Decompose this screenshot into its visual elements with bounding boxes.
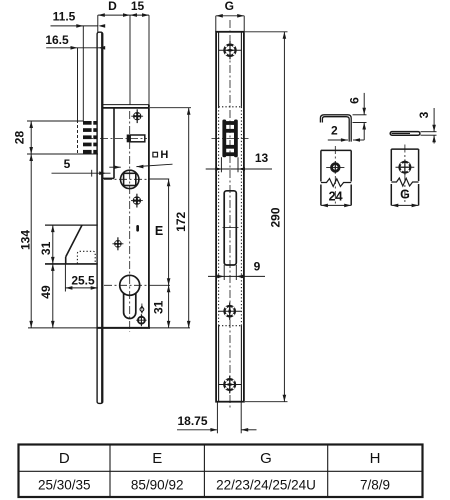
screw S2	[131, 194, 143, 208]
label 11.5	[53, 9, 76, 23]
latch centerline	[85, 138, 147, 140]
svg-text:15: 15	[131, 0, 145, 13]
label D	[108, 0, 117, 13]
dim 2	[328, 138, 364, 142]
svg-text:31: 31	[39, 241, 53, 255]
svg-text:H: H	[370, 450, 381, 467]
label 2	[331, 124, 338, 138]
label 16.5	[45, 33, 69, 47]
extension line case back	[148, 15, 150, 104]
nut plate 24	[321, 150, 351, 205]
svg-text:2: 2	[331, 124, 338, 138]
small circle pin	[140, 304, 144, 317]
dim 31 left	[51, 225, 55, 264]
dim 5	[52, 170, 111, 177]
svg-text:25/30/35: 25/30/35	[38, 477, 91, 492]
dim G strike	[216, 14, 244, 32]
table header H	[370, 450, 381, 467]
svg-text:H: H	[160, 149, 168, 161]
latch centerline at strike	[212, 138, 249, 140]
dim 9	[208, 265, 265, 280]
screw S1	[131, 109, 143, 123]
label 31 right	[152, 300, 166, 314]
label 31 left	[39, 241, 53, 255]
label 3	[417, 111, 431, 118]
slot mid tick	[223, 227, 239, 229]
svg-text:172: 172	[174, 211, 188, 231]
svg-text:G: G	[225, 0, 234, 13]
label 290	[269, 207, 283, 227]
faceplate	[97, 32, 103, 403]
svg-text:25.5: 25.5	[71, 273, 95, 287]
table value H	[360, 477, 390, 492]
extension line backset axis	[129, 15, 131, 104]
dim 13	[206, 157, 272, 172]
dim 3	[421, 108, 437, 144]
svg-text:13: 13	[255, 151, 269, 165]
extension line 16.5 dashed	[77, 120, 79, 154]
nut plate 24 centerline	[334, 146, 336, 204]
label G strike	[225, 0, 234, 13]
svg-text:85/90/92: 85/90/92	[131, 477, 184, 492]
svg-text:E: E	[152, 450, 162, 467]
label 6	[348, 97, 362, 104]
svg-text:22/23/24/25/24U: 22/23/24/25/24U	[216, 477, 316, 492]
svg-text:49: 49	[39, 285, 53, 299]
small slot	[136, 225, 139, 232]
svg-text:D: D	[59, 450, 70, 467]
dim 49	[51, 264, 55, 328]
svg-text:D: D	[108, 0, 117, 13]
hub horizontal centerline	[104, 178, 149, 180]
latch bolt	[127, 135, 145, 143]
label 134	[18, 230, 32, 250]
dim 18.75	[177, 402, 257, 434]
dim 24	[321, 204, 351, 208]
dim 6	[353, 93, 367, 140]
dim H arrows	[109, 164, 172, 169]
strike screw middle	[219, 303, 241, 320]
dim line D and 15 (top)	[98, 13, 149, 17]
strike screw bottom	[218, 376, 241, 394]
svg-text:E: E	[155, 224, 163, 238]
extension line faceplate top	[97, 15, 99, 32]
screw S4	[136, 314, 146, 326]
table value D	[38, 477, 91, 492]
label 13	[255, 151, 269, 165]
dim 31 right	[167, 285, 171, 328]
label G part	[400, 187, 410, 201]
strike inner fold lines	[219, 32, 242, 402]
extension line 16.5 solid	[77, 48, 79, 120]
svg-text:28: 28	[13, 131, 27, 145]
cylinder extension to dim	[149, 284, 171, 286]
svg-text:18.75: 18.75	[177, 414, 207, 428]
svg-text:G: G	[400, 187, 410, 201]
dim 25.5	[65, 264, 97, 292]
dim 11.5	[51, 24, 106, 28]
table value G	[216, 477, 316, 492]
svg-text:31: 31	[152, 300, 166, 314]
dim 172	[150, 108, 191, 328]
strike screw top	[218, 41, 241, 59]
dim G part	[391, 204, 418, 208]
dim 134	[29, 154, 33, 328]
nut plate G centerline	[404, 145, 406, 205]
label square H	[153, 149, 168, 161]
cylinder horizontal centerline	[104, 284, 149, 286]
svg-text:5: 5	[64, 157, 71, 171]
table frame	[19, 445, 423, 498]
nut plate G	[391, 149, 418, 205]
label 28	[13, 131, 27, 145]
svg-text:3: 3	[417, 111, 431, 118]
case bottom line with extensions	[28, 327, 190, 329]
dim E	[167, 179, 171, 285]
clip profile part	[320, 115, 351, 142]
label 15	[131, 0, 145, 13]
screw S3	[112, 237, 123, 250]
svg-text:G: G	[260, 450, 272, 467]
label 49	[39, 285, 53, 299]
extension line 28 top	[27, 120, 83, 122]
label E	[155, 224, 163, 238]
svg-text:6: 6	[348, 97, 362, 104]
strike plate outer	[216, 32, 244, 402]
dim 28	[29, 121, 33, 154]
dim 16.5	[46, 46, 105, 50]
euro cylinder	[120, 275, 140, 318]
extension line 28 bottom	[27, 153, 98, 155]
nut plate 24 screw	[326, 161, 344, 173]
case vertical centerline	[129, 111, 131, 332]
hub extension to E dim	[149, 178, 170, 180]
nut plate G screw	[396, 160, 415, 176]
svg-text:9: 9	[254, 260, 261, 274]
table header E	[152, 450, 162, 467]
svg-text:16.5: 16.5	[45, 33, 69, 47]
anti-thrust trapezoid	[45, 225, 98, 264]
svg-text:24: 24	[329, 189, 343, 203]
dim 290	[245, 32, 288, 402]
dotted hidden block	[77, 251, 95, 263]
latch spring bolt serrated	[83, 120, 97, 155]
label 25.5	[71, 273, 95, 287]
label 18.75	[177, 414, 207, 428]
label 24	[329, 189, 343, 203]
strike slot	[224, 191, 236, 265]
svg-text:134: 134	[18, 230, 32, 250]
svg-text:290: 290	[269, 207, 283, 227]
label 172	[174, 211, 188, 231]
label 9	[254, 260, 261, 274]
lock case outline	[102, 105, 149, 328]
table header D	[59, 450, 70, 467]
extension line 11.5	[82, 26, 84, 121]
table value E	[131, 477, 184, 492]
follower hub	[121, 170, 139, 188]
svg-text:7/8/9: 7/8/9	[360, 477, 390, 492]
strike vertical centerline	[229, 20, 231, 410]
table header G	[260, 450, 272, 467]
flat bar part	[390, 132, 420, 136]
roller keeper	[222, 120, 237, 158]
svg-text:11.5: 11.5	[53, 9, 76, 23]
label 5	[64, 157, 71, 171]
